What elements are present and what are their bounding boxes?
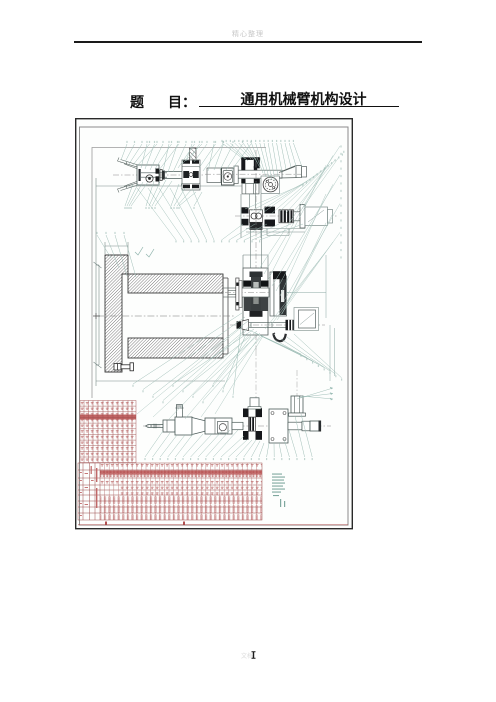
leader fan: base shaft down-right xyxy=(249,330,342,378)
arm end cap xyxy=(302,167,307,178)
hub with balls xyxy=(250,210,263,223)
shaft cone xyxy=(242,320,249,331)
shaft left nut xyxy=(237,321,242,328)
lower housing xyxy=(242,183,259,194)
wrist unit core blocks xyxy=(183,171,189,178)
BOM table grid xyxy=(78,463,262,520)
gripper lower finger xyxy=(118,181,139,193)
leader tiny labels xyxy=(96,140,344,460)
wrist unit bearings bottom xyxy=(183,185,190,189)
wrist2 top cylinder xyxy=(250,398,259,409)
leader fan: gripper (top) xyxy=(121,144,251,172)
gripper body xyxy=(137,165,159,185)
wrist rotary unit hatched cap xyxy=(190,148,197,160)
leader: cylinder callouts xyxy=(97,235,136,277)
joint shaft xyxy=(232,422,243,429)
cylinder top wall (hatched) xyxy=(128,274,223,293)
right bearing C-blocks xyxy=(265,207,276,227)
shaft into cylinder bore xyxy=(223,288,236,297)
inner frame xyxy=(80,127,349,525)
dimension lines right xyxy=(286,255,335,381)
parts table upper-left: grid xyxy=(80,401,136,463)
gripper upper finger xyxy=(118,158,139,170)
BOM left column text xyxy=(79,466,97,516)
dimension label xyxy=(181,184,187,186)
cylinder bore centerline xyxy=(97,315,235,317)
cylinder end faces xyxy=(223,274,228,358)
small top cylinder xyxy=(177,405,183,418)
roughness symbols xyxy=(135,247,154,257)
shoulder arm link xyxy=(279,166,302,179)
drive centerline xyxy=(235,215,337,217)
shoulder beam xyxy=(234,170,282,178)
waist input shaft xyxy=(236,288,269,297)
leader fan: waist to lower-left long xyxy=(137,326,263,419)
gripper internals xyxy=(139,169,168,182)
technical notes (green) xyxy=(272,474,285,508)
column link to waist xyxy=(243,230,268,268)
wrist2 unit black bearings xyxy=(243,408,262,440)
gear stack (striped) xyxy=(279,210,294,223)
connecting shaft xyxy=(165,172,182,179)
leader fan: elbow drive up-right xyxy=(245,157,339,214)
title row xyxy=(0,88,496,90)
waist right top block xyxy=(273,271,286,279)
BOM table (wide) text texture xyxy=(100,464,262,470)
clamp hook xyxy=(274,334,286,341)
flange dimension xyxy=(105,242,128,254)
elbow motor body xyxy=(305,207,328,226)
coupling (striped) xyxy=(286,320,295,331)
parts table upper-left: dark band xyxy=(80,415,136,420)
waist left flange xyxy=(236,278,239,310)
long sleeve box xyxy=(205,418,232,434)
tick marks under table xyxy=(105,522,107,525)
rod holder box xyxy=(163,420,175,432)
waist right plate xyxy=(270,272,274,316)
leader fan: waist joint down-left xyxy=(133,313,263,401)
wrist unit flange lines xyxy=(182,167,200,184)
shaft rings xyxy=(160,170,162,181)
wrist unit bearings top xyxy=(183,160,190,163)
end block xyxy=(310,421,320,431)
harmonic drive face xyxy=(261,176,280,194)
parts table upper-left: text texture xyxy=(80,401,136,463)
dimension line overall xyxy=(96,178,258,386)
BOM bottom rule xyxy=(78,524,348,526)
output shaft boxes xyxy=(288,422,302,430)
taper adapter xyxy=(192,418,205,435)
header rule xyxy=(74,41,422,43)
leader fan: waist joint long right xyxy=(259,146,340,329)
mounting flange plate xyxy=(222,168,235,185)
drive column sides xyxy=(241,194,261,238)
BOM red band xyxy=(100,471,262,475)
stepped adapter xyxy=(294,212,301,221)
main vertical centerline xyxy=(255,150,257,350)
waist right housing xyxy=(274,276,287,316)
probe rod xyxy=(146,424,164,428)
gripper bearing block xyxy=(156,169,160,182)
cylinder bottom wall (hatched) xyxy=(128,338,223,358)
waist bottom cap xyxy=(250,311,263,317)
bracket feet xyxy=(241,179,259,184)
gripper centerline xyxy=(113,174,205,176)
leader fan: elbow drive bottom labels xyxy=(137,188,303,240)
centerline arrow xyxy=(93,313,100,319)
leader fan: bottom arm up-right xyxy=(297,387,333,401)
wrist rotary unit body xyxy=(182,160,200,190)
motor flange plate xyxy=(300,205,305,229)
lower gear block xyxy=(250,222,263,230)
waist bearings xyxy=(243,281,251,287)
flange foot bolt xyxy=(114,363,134,371)
motor mount bracket xyxy=(246,229,305,236)
waist top cap xyxy=(250,272,263,278)
threaded rod xyxy=(249,323,286,328)
base motor xyxy=(294,308,319,331)
wrist2 gear core xyxy=(249,417,256,431)
mounting plate with bolt holes xyxy=(269,409,288,443)
base flange (hatched) xyxy=(105,255,128,372)
BOM table column lines xyxy=(105,463,257,520)
waist side gear blocks xyxy=(244,297,251,312)
riser cylinder xyxy=(291,396,303,413)
motor end cap xyxy=(328,210,333,224)
shoulder bracket (black U-frame) xyxy=(241,157,259,170)
leader fan: gripper (bottom) xyxy=(125,180,202,206)
waist core shaft xyxy=(251,277,261,311)
spacer box xyxy=(207,168,221,183)
waist housing xyxy=(243,268,268,335)
header small grey text xyxy=(0,29,496,39)
left bearing C-blocks xyxy=(242,207,249,225)
leader fan: shoulder bracket top xyxy=(222,143,302,181)
feed box xyxy=(175,417,192,435)
paper xyxy=(75,118,353,530)
leader fan: bottom arm down xyxy=(145,414,312,457)
footer page number xyxy=(241,651,253,660)
drawing image xyxy=(75,118,353,530)
drawing frame xyxy=(92,148,266,399)
outer border xyxy=(76,119,353,529)
